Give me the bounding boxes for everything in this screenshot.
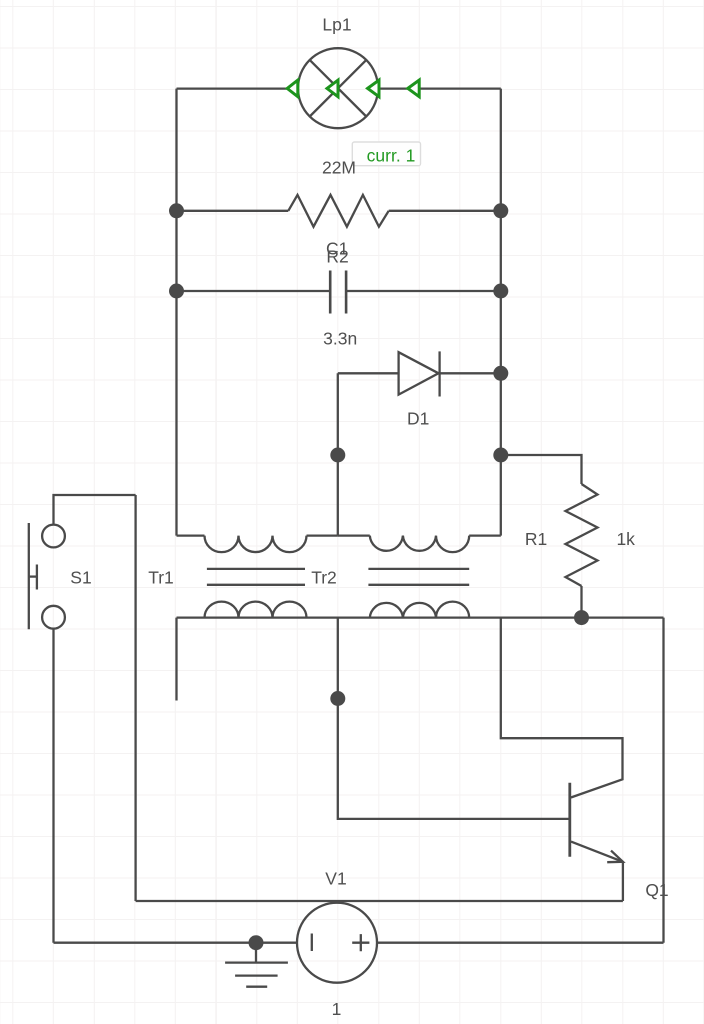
node dot right capacitor row [493,284,508,299]
wire bottom row left of V1 [54,942,297,944]
wire center vertical from diode to transformers [337,373,339,535]
wire S1 bottom down [52,629,54,943]
node dot center column [330,448,345,463]
wire center lower vertical to base [338,618,570,819]
capacitor C1 [330,271,346,314]
wire left vertical main [175,89,177,536]
svg-text:V1: V1 [325,869,346,889]
node dot center lower [330,691,345,706]
svg-text:Lp1: Lp1 [322,15,351,35]
wire from node to R1 top [501,455,582,484]
wire stub below Tr1 secondary left [175,618,177,701]
node dot left resistor row [169,203,184,218]
resistor R2 [288,195,388,227]
transformer Tr2 primary [338,536,501,553]
current arrow 2 [327,80,338,97]
svg-text:1: 1 [332,999,342,1019]
label curr. 1 box [352,142,420,166]
wire capacitor row left [177,290,331,292]
svg-text:R2: R2 [326,247,348,267]
transformer Tr2 secondary winding [370,602,469,618]
transformer Tr1 primary [177,536,338,553]
svg-text:22M: 22M [322,158,356,178]
node dot R1 bottom [574,610,589,625]
switch S1 [29,523,65,629]
node dot R1 branch [493,448,508,463]
svg-text:S1: S1 [70,567,91,587]
transformer Tr2 core [368,569,469,585]
current arrow 1 (curr. 1 direction) [287,80,298,97]
wire resistor row left [177,210,289,212]
wire R1 bottom lead [580,586,582,618]
wire S1 top to second column [54,495,136,525]
svg-text:1k: 1k [616,529,635,549]
wire resistor row right [389,210,501,212]
voltage source V1 [297,903,377,983]
svg-text:D1: D1 [407,409,429,429]
wire secondary row horizontal [177,616,664,618]
svg-text:Tr2: Tr2 [311,567,337,587]
wire lamp to top-right corner [378,87,501,89]
node dot ground [249,935,264,950]
wire right vertical main [500,89,502,536]
transformer Tr1 core [207,569,305,585]
wire capacitor row right [346,290,501,292]
resistor R1 [566,484,598,586]
svg-text:Q1: Q1 [645,880,668,900]
ground [225,943,288,987]
transformer Tr1 secondary winding [205,602,307,618]
svg-text:3.3n: 3.3n [323,329,357,349]
wire emitter bottom horizontal [136,900,623,902]
node dot right resistor row [493,203,508,218]
wire diode cathode [440,372,501,374]
current arrow 4 [408,80,419,97]
wire collector path [501,618,623,798]
node dot diode cathode [493,366,508,381]
wire right outer vertical [662,618,664,943]
wire emitter down [622,862,624,901]
wire bottom row right of V1 [377,942,663,944]
svg-text:R1: R1 [525,529,547,549]
node dot left capacitor row [169,284,184,299]
wire second column vertical [134,495,136,901]
transistor Q1 [570,783,623,862]
wire diode anode [338,372,399,374]
wire top-left horizontal to lamp [177,87,298,89]
lamp Lp1 [298,48,378,128]
current arrow 3 [368,80,379,97]
diode D1 [399,351,440,396]
svg-text:curr. 1: curr. 1 [367,146,416,166]
svg-text:Tr1: Tr1 [148,567,174,587]
